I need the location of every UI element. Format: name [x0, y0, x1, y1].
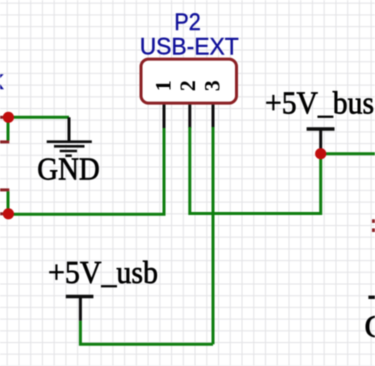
wire resistor bottom pin to node B [7, 191, 10, 213]
power +5V_bus [265, 85, 374, 151]
resistor bottom pin (component off-screen left) [0, 188, 9, 191]
svg-text:1: 1 [151, 80, 176, 91]
connector P2 [140, 9, 239, 128]
power +5V_usb [48, 254, 158, 321]
junction node A [3, 112, 14, 123]
pin stub at node A (off-screen component pin) [0, 116, 4, 119]
pin stub at node B (off-screen component pin) [0, 212, 4, 215]
wire pin 3 of P2 down to +5V_usb rail [212, 127, 215, 344]
svg-text:P2: P2 [174, 9, 201, 36]
svg-text:+5V_usb: +5V_usb [48, 254, 158, 290]
wire node C to right edge [321, 152, 375, 155]
pin 2 [188, 105, 191, 128]
pin 3 [212, 105, 215, 128]
svg-text:USB-EXT: USB-EXT [140, 34, 239, 61]
pin 1 [163, 105, 166, 128]
wire node B to pin 1 of P2 [8, 127, 164, 214]
wire pin 2 of P2 to node C [190, 127, 321, 214]
wire node A to ground corner [8, 116, 69, 119]
wire node A down to resistor top pin [7, 117, 10, 140]
label (partial red text at right edge) [372, 219, 375, 232]
svg-text:+5V_bus: +5V_bus [265, 85, 374, 121]
svg-text:GND: GND [37, 150, 100, 186]
svg-text:3: 3 [200, 80, 225, 91]
svg-text:GND: GND [365, 308, 375, 344]
svg-text:2: 2 [175, 80, 200, 91]
resistor top pin (component off-screen left) [0, 140, 9, 143]
ground GND [37, 117, 100, 186]
junction node C [315, 148, 326, 159]
connector body [141, 59, 237, 103]
wire +5V_usb to pin 3 rail [80, 321, 213, 344]
ground (partial, right edge) [365, 297, 375, 344]
junction node B [3, 208, 14, 219]
